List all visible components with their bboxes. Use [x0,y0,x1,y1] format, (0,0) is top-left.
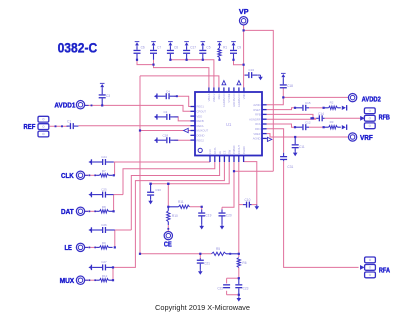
power arrow above C6 [135,41,140,46]
svg-text:LE: LE [218,151,222,154]
connector CE [164,231,172,239]
wire CLK connector stub [85,174,88,176]
connector RFA pads [365,257,376,278]
node junction 27 [323,126,325,128]
RFA port label [379,265,390,274]
capacitor C19 [198,210,205,225]
wire C12 to R3 [309,126,324,128]
wire C2 to IC pin REFB [174,117,190,121]
connector LE [76,243,84,251]
R12 value label [102,274,108,278]
junction dot R5 right lead [229,253,231,255]
resistor R5 [212,252,239,255]
C12 value label [305,121,311,125]
arrow output R2 [342,106,346,110]
connector DAT [76,207,84,215]
wire LE connector stub [85,246,88,248]
svg-text:RFN: RFN [255,127,261,131]
capacitor C18 [280,78,287,88]
C15 value label [305,101,311,105]
arrow bar R3 [346,125,347,130]
wire IC pin MUX staircase [113,162,224,267]
wire C22 top lead [226,278,228,283]
capacitor C17 [183,46,190,59]
ground for C22 C23 [237,296,242,301]
C6 value label [141,46,145,50]
junction dot MUX row [112,279,114,281]
capacitor C27 input bar [91,265,92,270]
capacitor C25 [92,192,114,198]
wire R5 to R6 junction [238,254,240,257]
capacitor C24 [92,159,114,165]
svg-text:REG2: REG2 [197,138,205,142]
LE port label [65,243,73,252]
wire C4 to IC pin REG1 [174,96,190,106]
svg-text:C28: C28 [163,134,169,138]
C4 value label [166,89,170,93]
wire C7 lead to bus B [153,60,155,65]
capacitor C26 input bar [91,227,92,232]
U1 right pin stubs [262,105,267,139]
CE port label [164,242,172,249]
C18 value label [287,84,293,88]
wire C14 to RFB pad [325,117,365,119]
svg-text:VP: VP [239,7,249,16]
wire AVDD1 to IC pin VDD [85,105,191,111]
junction dot MUX lead 2 [94,279,96,281]
REF port label [24,122,36,131]
op-amp U1 body (IC ADF4351 QFN) [195,92,262,156]
node junction 10 [282,96,284,98]
power arrow above C8 [168,41,173,46]
wire MUX connector to resistor [85,279,97,281]
capacitor C12 [296,124,309,130]
R9 value label [102,241,106,245]
wire C16 from VP rail [244,74,246,76]
wire IC pin 8 to gnd via C10 right [244,162,257,205]
resistor R12 (MUX series) [96,279,112,282]
ground for C19 [199,224,204,229]
svg-text:C3: C3 [106,94,110,98]
C20 value label [226,213,232,217]
node junction 8 [243,64,245,66]
C11 value label [299,145,305,149]
svg-text:AVDD2: AVDD2 [362,94,381,103]
ground for C21 [198,270,203,275]
capacitor C9 [230,46,237,59]
wire C18 bottom lead [282,88,284,97]
arrow port MUXOUT pin [184,128,189,132]
junction dot CLK lead 1 [89,174,91,176]
R7 value label [102,169,106,173]
capacitor C4 [158,93,177,99]
wire C28 to IC pin REG2 [174,139,190,141]
capacitor C25 input bar [91,192,92,197]
R8 value label [102,205,106,209]
svg-text:C7: C7 [157,46,161,50]
power arrow above C3 [100,83,105,88]
wire IC pin CE staircase [151,162,230,184]
svg-text:C4: C4 [166,89,170,93]
wire IC pin to C14 [267,118,317,120]
C21 value label [204,261,210,265]
capacitor C22 [223,284,230,288]
C24 value label [101,155,107,159]
node junction 2 [152,64,154,66]
wire DAT row junction riser [113,195,115,212]
U1 reference label [226,122,232,127]
capacitor C24 input bar [91,159,92,164]
wire LE row junction riser [114,230,116,247]
wire C15 to R2 [309,107,324,109]
svg-text:RFA: RFA [379,265,390,274]
wire C20 top lead [221,207,223,209]
resistor R2 [324,106,340,109]
connector AVDD2 [348,93,356,101]
junction dot CE lead [167,228,169,230]
C3 value label [106,94,110,98]
wire IC pin RF to C31 [267,129,284,153]
power arrow above R1 [217,41,222,46]
wire rail to R5 [140,253,212,255]
junction dot LE row [114,246,116,248]
svg-text:REFA: REFA [197,124,204,128]
svg-text:AVDD: AVDD [253,103,260,107]
svg-text:AVDD1: AVDD1 [54,100,75,109]
U1 bottom pin stubs [210,156,244,163]
svg-text:DATA: DATA [213,147,217,154]
U1 right pin names [249,103,261,141]
R2 value label [330,101,334,105]
svg-text:CLK: CLK [208,149,212,154]
node junction 6 [218,59,220,61]
node junction 15 [139,253,141,255]
C9 value label [237,46,241,50]
svg-text:R7: R7 [102,169,106,173]
svg-text:C11: C11 [299,145,305,149]
RFB port label [379,113,390,122]
svg-text:VREF: VREF [253,132,261,136]
wire IC pin RFB elbow [267,114,313,118]
junction dot LE lead 1 [89,247,91,249]
junction dot LE lead 2 [94,247,96,249]
C23 value label [243,286,249,290]
svg-text:C6: C6 [141,46,145,50]
node junction 9 [101,104,103,106]
C26 value label [101,223,107,227]
C30 value label [155,188,161,192]
junction dot CE staircase [167,183,169,185]
wire AVDD2 branch to IC pin AVDD [267,97,284,104]
svg-text:PGND: PGND [242,146,246,154]
svg-text:C12: C12 [305,121,311,125]
svg-text:C21: C21 [204,261,210,265]
C25 value label [101,187,107,191]
arrow at C24 [88,160,91,164]
svg-text:R12: R12 [102,274,108,278]
C17 value label [190,46,196,50]
copyright text [155,303,250,312]
junction dot CLK lead 2 [94,174,96,176]
C28 value label [163,134,169,138]
node junction 18 [201,206,203,208]
wire C9 bottom to VP rail [234,60,244,65]
svg-text:LE: LE [65,243,73,252]
C7 value label [157,46,161,50]
arrow at C2 [154,115,157,119]
wire REF C1 to IC pin REFA [78,125,190,127]
svg-text:C23: C23 [243,286,249,290]
connector AVDD1 [76,101,84,109]
resistor R3 [324,126,340,129]
wire IC pin 7 down to bias junction [238,162,240,254]
svg-text:C30: C30 [155,188,161,192]
U1 bottom pin names [208,145,246,155]
node junction 3 [169,59,171,61]
capacitor C11 [292,137,299,151]
ground for C10 [255,205,260,210]
svg-text:AGNDVCO: AGNDVCO [237,94,241,108]
power arrow above C9 [231,41,236,46]
wire C22 C23 bottom bar [227,295,239,297]
svg-text:SW: SW [227,149,231,154]
DAT port label [61,207,74,216]
U1 left pin names [197,105,209,143]
capacitor C3 [99,88,106,105]
svg-text:RFA: RFA [255,122,260,126]
resistor R9 (LE series) [96,246,112,249]
svg-text:VDD: VDD [242,93,246,99]
node junction 26 [294,126,296,128]
arrow port AGND pin [267,137,271,141]
capacitor C30 [147,184,154,199]
wire C22 C23 top bar [227,277,239,279]
U1 left pin stubs [190,107,195,141]
wire CLK connector to resistor [85,174,97,176]
node junction 1 [136,59,138,61]
node junction 28 [310,117,312,119]
svg-text:Copyright 2019 X-Microwave: Copyright 2019 X-Microwave [155,303,250,312]
svg-text:C20: C20 [226,213,232,217]
svg-text:REG: REG [217,94,221,100]
svg-text:C10: C10 [245,198,251,202]
svg-text:R3: R3 [330,120,334,124]
wire CLK row junction riser [114,162,116,175]
svg-text:RFOUT: RFOUT [237,145,241,155]
arrow port AGNDVCO top pin [222,81,226,85]
wire bus C to IC top pin 3 [140,76,219,88]
arrow at C25 [88,193,91,197]
C2 value label [164,110,168,114]
svg-text:AGNDVCO: AGNDVCO [222,94,226,108]
junction dot CLK row [113,174,115,176]
C22 value label [217,286,223,290]
svg-text:DAT: DAT [61,207,74,216]
wire CE R10 to connector [167,225,169,231]
svg-text:C1: C1 [67,119,71,123]
svg-text:HRFDVCO: HRFDVCO [232,94,236,107]
svg-text:R2: R2 [330,101,334,105]
arrow port VREGVCO top pin [237,81,241,85]
power arrow above C5 [201,41,206,46]
arrow at C27 [88,266,91,270]
svg-text:C25: C25 [101,187,107,191]
svg-text:C22: C22 [217,286,223,290]
svg-text:C18: C18 [287,84,293,88]
wire C22 bottom lead [226,291,228,295]
node junction 5 [202,59,204,61]
wire net MUXOUT vertical rail [139,76,141,254]
wire REF pad to C1 (dotted lead) [50,125,68,127]
wire CE branch down to R11 [167,184,169,207]
C16 value label [249,68,255,72]
svg-text:C31: C31 [287,165,293,169]
svg-text:C8: C8 [174,46,178,50]
VP port label [239,7,249,16]
svg-text:R6: R6 [242,261,246,265]
junction dot DAT row [113,210,115,212]
capacitor C28 [158,137,179,143]
C19 value label [206,213,212,217]
arrow at C26 [88,228,91,232]
resistor R8 (DAT series) [96,210,112,213]
wire IC pin MUXOUT to rail [140,130,190,132]
wire VP connector to junction [243,25,245,31]
wire bus B caps to IC top pin 1 [137,60,209,88]
capacitor C4 input bar [156,94,157,99]
node junction 20 [243,29,245,31]
connector VP [239,17,247,25]
svg-text:R8: R8 [102,205,106,209]
node junction 16 [199,253,201,255]
svg-text:U1: U1 [226,122,232,127]
C31 value label [287,165,293,169]
C1 value label [67,119,71,123]
R3 value label [330,120,334,124]
svg-text:C24: C24 [101,155,107,159]
C10 value label [245,198,251,202]
svg-text:C15: C15 [305,101,311,105]
svg-text:REFB: REFB [197,119,204,123]
resistor R10 [167,207,170,225]
wire MUX connector stub [85,279,88,281]
R1 value label [223,46,227,50]
wire DAT connector stub [85,210,88,212]
U1 top pin names [207,93,246,107]
power arrow above C17 [184,41,189,46]
ground for C30 [148,199,153,204]
arrow into RFB [360,116,364,121]
svg-text:VRF: VRF [360,133,373,142]
C5 value label [206,46,210,50]
MUX port label [60,276,75,285]
connector REF pads [38,116,49,137]
wire C21 tap [199,254,201,259]
node junction 13 [233,170,235,172]
junction dot C30 [149,183,151,185]
capacitor C23 [235,278,242,295]
node junction 17 [238,253,240,255]
node junction 4 [186,59,188,61]
capacitor C27 [92,264,113,270]
node junction 24 [294,107,296,109]
resistor R7 (CLK series) [96,174,112,177]
wire MUX row junction riser to C27 [112,267,114,280]
wire stub AGND arrow [267,138,268,139]
svg-text:CPOUT: CPOUT [197,110,207,114]
junction dot DAT lead 1 [89,210,91,212]
R6 value label [242,261,246,265]
arrow bar R2 [346,105,347,110]
connector VRF [348,133,356,141]
node junction 25 [323,107,325,109]
wire IC pin CLK staircase [114,161,210,163]
capacitor C26 [92,227,115,233]
arrow output R3 [342,125,346,129]
svg-text:DGND: DGND [197,134,205,138]
wire LE connector to resistor [85,246,97,248]
wire C10 tap [239,204,243,206]
node junction 11 [294,136,296,138]
capacitor C2 [158,114,179,120]
ground for C16 [258,75,263,80]
capacitor C8 [167,46,174,59]
junction dot MUX lead 1 [89,279,91,281]
resistor R6 [237,258,240,268]
capacitor C31 [280,153,287,161]
node junction 22 [238,294,240,296]
wire VP junction to right rail [244,30,274,171]
wire IC pin LE staircase [131,162,219,230]
U1 top pin stubs [209,87,244,92]
capacitor C10 [243,202,252,208]
svg-text:VDD: VDD [197,114,203,118]
ground for C11 [293,151,298,156]
junction dot C4 lead [176,95,178,97]
wire AVDD1 connector stub [85,104,89,106]
svg-text:RSET: RSET [253,108,261,112]
wire CE chain R11 to C19 [190,207,202,210]
wire IC pin to C12 R3 row [267,124,295,127]
capacitor C21 [197,258,204,269]
svg-text:RFB: RFB [379,113,390,122]
ground for C20 [220,224,225,229]
wire C18 to AVDD2 [283,96,348,98]
wire C16 to ground lead [257,74,260,76]
svg-text:C16: C16 [249,68,255,72]
wire VP rail branch to IC bottom pin [234,170,273,172]
arrow into RFA [360,265,364,270]
C8 value label [174,46,178,50]
wire DAT C25 level to staircase [114,194,123,196]
svg-text:C19: C19 [206,213,212,217]
svg-text:C2: C2 [164,110,168,114]
resistor R1 [218,46,221,59]
svg-text:AGNDRF: AGNDRF [249,117,261,121]
svg-text:AGND: AGND [253,137,261,141]
R10 value label [172,214,178,218]
power arrow above C7 [151,41,156,46]
capacitor C1 [67,123,79,129]
R11 value label [178,200,184,204]
svg-text:CLK: CLK [61,171,74,180]
CLK port label [61,171,74,180]
svg-text:C5: C5 [206,46,210,50]
svg-text:PDBRF: PDBRF [232,145,236,154]
svg-text:C17: C17 [190,46,196,50]
svg-text:C26: C26 [101,223,107,227]
svg-text:REG1: REG1 [197,105,205,109]
